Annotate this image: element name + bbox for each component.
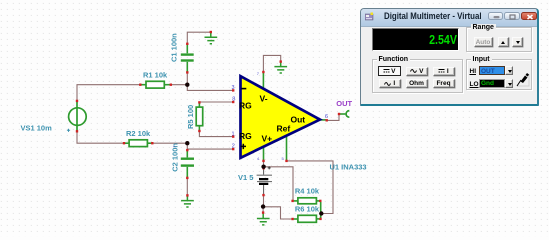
svg-text:2: 2 <box>232 144 235 150</box>
svg-text:R4 10k: R4 10k <box>295 187 320 196</box>
svg-text:R5 100: R5 100 <box>186 105 195 129</box>
svg-text:1: 1 <box>232 132 235 138</box>
svg-text:8: 8 <box>232 96 235 102</box>
svg-text:C1 100n: C1 100n <box>169 33 178 62</box>
svg-text:R6 10k: R6 10k <box>295 204 320 213</box>
svg-text:RG: RG <box>239 131 252 141</box>
svg-text:VS1 10m: VS1 10m <box>21 124 53 133</box>
svg-text:R1 10k: R1 10k <box>143 71 168 80</box>
svg-text:Ref: Ref <box>277 124 291 134</box>
svg-text:V1 5: V1 5 <box>238 173 253 182</box>
svg-text:V+: V+ <box>262 134 273 144</box>
svg-text:R2 10k: R2 10k <box>126 129 151 138</box>
svg-text:U1 INA333: U1 INA333 <box>330 163 367 172</box>
svg-text:3: 3 <box>232 85 235 91</box>
svg-text:RG: RG <box>239 101 252 111</box>
svg-text:OUT: OUT <box>336 99 352 108</box>
svg-text:Out: Out <box>291 115 306 125</box>
svg-text:V-: V- <box>260 94 268 104</box>
svg-text:6: 6 <box>325 114 328 120</box>
